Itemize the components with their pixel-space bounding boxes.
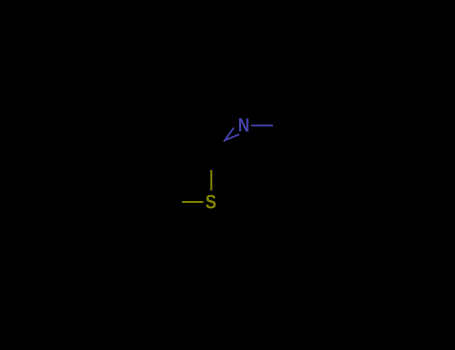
sulfur S atom label (206, 195, 216, 209)
wire: C2-S bond (S half, vertical) (210, 170, 212, 191)
wire: C2=N double bond line 2 (N half) (225, 134, 239, 140)
nitrogen N atom label (239, 118, 248, 131)
wire: C2=N double bond line 1 (N half) (224, 128, 234, 142)
wire: C4-S bond (S half, horizontal) (182, 201, 203, 203)
wire: N-CH2 bond (N half, horizontal) (251, 125, 273, 127)
